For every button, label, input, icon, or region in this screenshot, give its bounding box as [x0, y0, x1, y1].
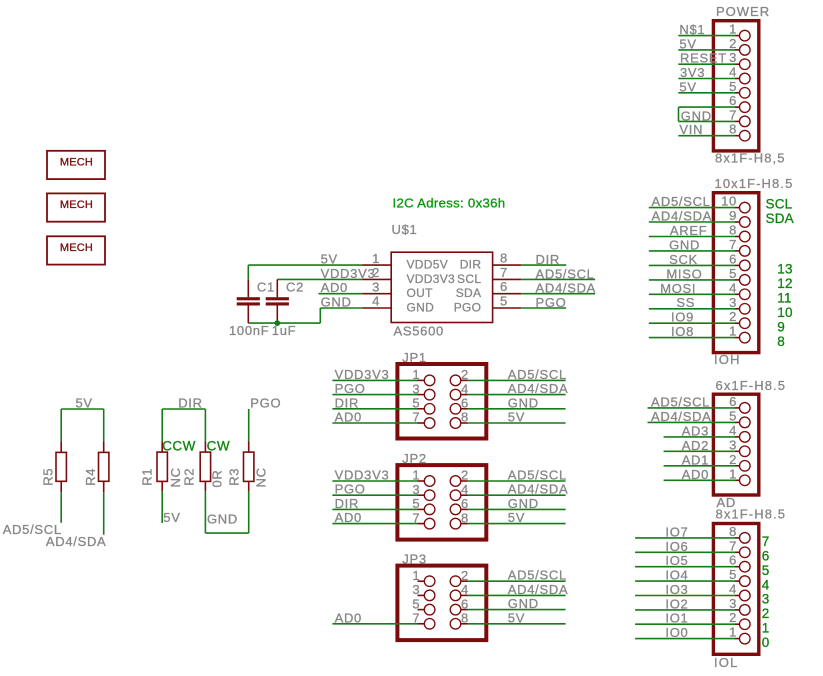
svg-text:AD1: AD1: [682, 452, 709, 467]
svg-text:10x1F-H8.5: 10x1F-H8.5: [715, 176, 794, 191]
svg-text:5V: 5V: [508, 410, 525, 425]
svg-text:4: 4: [729, 65, 737, 80]
svg-text:6x1F-H8.5: 6x1F-H8.5: [716, 378, 787, 393]
svg-text:8: 8: [729, 122, 737, 137]
svg-text:AD5/SCL: AD5/SCL: [652, 194, 711, 209]
svg-text:5: 5: [412, 596, 420, 611]
svg-text:1: 1: [412, 568, 420, 583]
svg-text:IO7: IO7: [665, 524, 688, 539]
svg-text:CCW: CCW: [162, 439, 196, 454]
svg-text:6: 6: [729, 251, 737, 266]
svg-text:0R: 0R: [210, 469, 225, 487]
svg-text:DIR: DIR: [536, 252, 561, 267]
svg-text:C2: C2: [286, 280, 304, 295]
svg-text:3: 3: [729, 50, 737, 65]
svg-text:7: 7: [729, 237, 737, 252]
svg-text:4: 4: [729, 423, 737, 438]
svg-text:SCK: SCK: [669, 252, 698, 267]
svg-text:3: 3: [762, 592, 770, 607]
svg-text:MECH: MECH: [60, 199, 93, 211]
svg-text:100nF: 100nF: [229, 323, 269, 338]
svg-text:4: 4: [762, 577, 770, 592]
svg-text:3: 3: [729, 295, 737, 310]
svg-text:2: 2: [729, 309, 737, 324]
svg-text:6: 6: [762, 549, 770, 564]
svg-text:AD4/SDA: AD4/SDA: [651, 409, 712, 424]
svg-text:6: 6: [729, 394, 737, 409]
svg-text:AREF: AREF: [670, 223, 707, 238]
svg-text:DIR: DIR: [335, 496, 360, 511]
svg-text:AD4/SDA: AD4/SDA: [508, 381, 569, 396]
svg-text:5V: 5V: [163, 510, 180, 525]
svg-text:JP2: JP2: [402, 451, 427, 466]
svg-text:11: 11: [777, 291, 791, 306]
svg-text:PGO: PGO: [335, 482, 366, 497]
svg-text:8: 8: [500, 251, 508, 266]
svg-text:GND: GND: [207, 512, 238, 527]
svg-text:IO2: IO2: [665, 596, 688, 611]
svg-text:PGO: PGO: [536, 295, 567, 310]
svg-text:PGO: PGO: [335, 381, 366, 396]
svg-text:IO1: IO1: [665, 611, 688, 626]
svg-text:I2C Adress: 0x36h: I2C Adress: 0x36h: [393, 196, 506, 211]
svg-text:R2: R2: [182, 468, 197, 486]
svg-text:VIN: VIN: [679, 122, 703, 137]
svg-text:GND: GND: [508, 596, 539, 611]
svg-text:AD0: AD0: [335, 510, 362, 525]
svg-text:OUT: OUT: [407, 286, 434, 300]
svg-text:MECH: MECH: [60, 156, 93, 168]
svg-text:2: 2: [729, 36, 737, 51]
svg-text:R1: R1: [140, 468, 155, 486]
svg-text:AD0: AD0: [335, 610, 362, 625]
svg-text:5: 5: [729, 567, 737, 582]
svg-text:5V: 5V: [508, 510, 525, 525]
svg-text:5V: 5V: [679, 36, 696, 51]
svg-text:SCL: SCL: [766, 197, 793, 212]
svg-text:VDD5V: VDD5V: [407, 258, 449, 272]
svg-text:8x1F-H8,5: 8x1F-H8,5: [715, 151, 786, 166]
svg-text:U$1: U$1: [392, 222, 418, 237]
svg-text:1: 1: [729, 625, 737, 640]
svg-text:MOSI: MOSI: [660, 281, 696, 296]
svg-text:GND: GND: [681, 108, 712, 123]
svg-text:GND: GND: [508, 395, 539, 410]
svg-text:3: 3: [729, 596, 737, 611]
svg-text:AS5600: AS5600: [394, 324, 444, 339]
svg-text:VDD3V3: VDD3V3: [407, 272, 456, 286]
svg-text:5: 5: [729, 408, 737, 423]
svg-text:R3: R3: [227, 468, 242, 486]
svg-text:8: 8: [777, 334, 785, 349]
svg-text:AD4/SDA: AD4/SDA: [508, 482, 569, 497]
svg-text:IO4: IO4: [665, 568, 688, 583]
svg-text:5: 5: [500, 294, 508, 309]
svg-text:R5: R5: [41, 468, 56, 486]
svg-text:PGO: PGO: [250, 396, 281, 411]
svg-text:JP1: JP1: [402, 350, 427, 365]
svg-text:AD0: AD0: [682, 467, 709, 482]
svg-text:4: 4: [372, 294, 380, 309]
svg-text:IOH: IOH: [714, 352, 741, 367]
svg-text:2: 2: [729, 610, 737, 625]
svg-text:AD0: AD0: [335, 410, 362, 425]
svg-text:DIR: DIR: [335, 395, 360, 410]
svg-text:IO9: IO9: [671, 310, 694, 325]
svg-text:AD4/SDA: AD4/SDA: [536, 281, 597, 296]
svg-text:AD4/SDA: AD4/SDA: [46, 534, 107, 549]
svg-text:2: 2: [762, 606, 770, 621]
svg-text:7: 7: [762, 534, 770, 549]
svg-text:7: 7: [729, 107, 737, 122]
svg-text:AD3: AD3: [682, 423, 709, 438]
svg-text:AD5/SCL: AD5/SCL: [508, 367, 567, 382]
svg-text:1: 1: [729, 466, 737, 481]
svg-text:SS: SS: [676, 295, 695, 310]
svg-text:8: 8: [729, 223, 737, 238]
svg-text:AD5/SCL: AD5/SCL: [508, 568, 567, 583]
svg-text:1: 1: [762, 620, 770, 635]
svg-text:0: 0: [762, 635, 770, 650]
svg-text:VDD3V3: VDD3V3: [335, 367, 390, 382]
svg-text:IO5: IO5: [665, 553, 688, 568]
svg-text:RESET: RESET: [680, 51, 727, 66]
svg-text:8x1F-H8.5: 8x1F-H8.5: [716, 506, 787, 521]
svg-text:6: 6: [500, 279, 508, 294]
svg-text:10: 10: [721, 194, 737, 209]
svg-text:CW: CW: [207, 439, 231, 454]
svg-text:AD5/SCL: AD5/SCL: [508, 468, 567, 483]
svg-text:10: 10: [777, 305, 792, 320]
svg-text:R4: R4: [83, 468, 98, 486]
svg-text:MECH: MECH: [60, 242, 93, 254]
svg-text:PGO: PGO: [454, 301, 482, 315]
svg-text:7: 7: [500, 265, 508, 280]
svg-text:12: 12: [777, 276, 792, 291]
svg-text:4: 4: [729, 582, 737, 597]
svg-text:SDA: SDA: [766, 211, 794, 226]
svg-text:5V: 5V: [508, 610, 525, 625]
svg-text:1: 1: [372, 251, 380, 266]
svg-text:5V: 5V: [679, 79, 696, 94]
svg-text:DIR: DIR: [460, 258, 482, 272]
svg-text:IO3: IO3: [665, 582, 688, 597]
svg-text:8: 8: [729, 524, 737, 539]
svg-text:6: 6: [729, 93, 737, 108]
svg-text:6: 6: [729, 553, 737, 568]
svg-text:5: 5: [762, 563, 770, 578]
svg-text:3V3: 3V3: [680, 65, 705, 80]
svg-text:9: 9: [729, 208, 737, 223]
svg-text:C1: C1: [257, 280, 275, 295]
svg-text:AD5/SCL: AD5/SCL: [536, 266, 595, 281]
svg-text:JP3: JP3: [402, 552, 427, 567]
svg-text:NC: NC: [254, 467, 269, 487]
svg-text:N$1: N$1: [679, 22, 705, 37]
svg-text:POWER: POWER: [716, 4, 770, 19]
svg-text:13: 13: [777, 262, 792, 277]
svg-text:2: 2: [729, 452, 737, 467]
svg-text:1uF: 1uF: [272, 323, 297, 338]
svg-text:SDA: SDA: [456, 286, 482, 300]
svg-text:5: 5: [729, 266, 737, 281]
svg-text:1: 1: [729, 324, 737, 339]
svg-text:3: 3: [412, 582, 420, 597]
svg-text:AD2: AD2: [682, 438, 709, 453]
svg-text:IO0: IO0: [665, 625, 688, 640]
svg-text:MISO: MISO: [666, 266, 702, 281]
svg-text:SCL: SCL: [457, 272, 481, 286]
svg-text:9: 9: [777, 319, 785, 334]
svg-text:IOL: IOL: [714, 655, 739, 670]
svg-text:AD4/SDA: AD4/SDA: [652, 209, 713, 224]
svg-text:GND: GND: [508, 496, 539, 511]
svg-text:3: 3: [372, 279, 380, 294]
svg-text:IO6: IO6: [665, 539, 688, 554]
svg-text:IO8: IO8: [671, 324, 694, 339]
svg-text:VDD3V3: VDD3V3: [335, 468, 390, 483]
svg-text:5: 5: [729, 79, 737, 94]
svg-text:AD4/SDA: AD4/SDA: [508, 582, 569, 597]
svg-text:GND: GND: [669, 237, 700, 252]
svg-text:7: 7: [729, 538, 737, 553]
svg-text:GND: GND: [407, 301, 435, 315]
svg-text:AD5/SCL: AD5/SCL: [651, 394, 710, 409]
svg-text:4: 4: [729, 280, 737, 295]
svg-text:1: 1: [729, 22, 737, 37]
svg-text:3: 3: [729, 437, 737, 452]
